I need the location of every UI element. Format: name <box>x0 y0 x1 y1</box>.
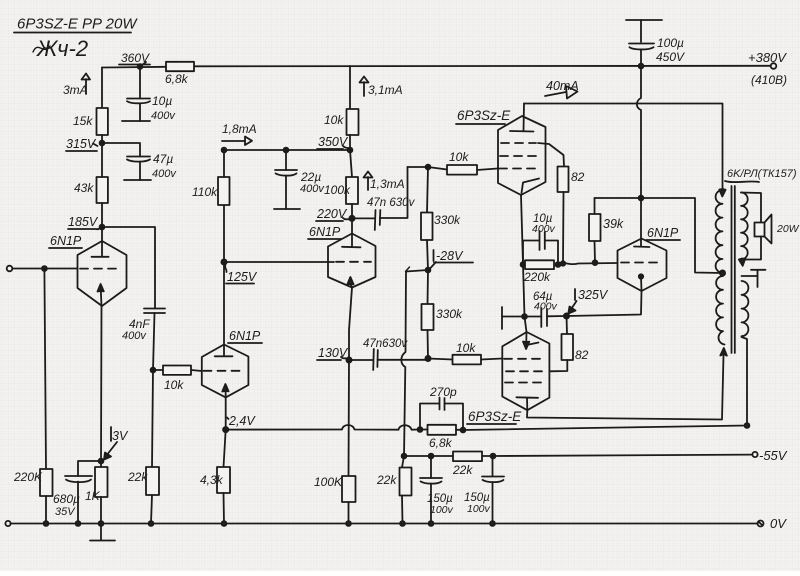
node rail/220K <box>44 521 49 526</box>
capacitor 22µ 400v (decoupling) <box>274 148 325 209</box>
svg-text:185V: 185V <box>68 215 99 229</box>
terminal input <box>7 266 13 272</box>
node 360V <box>119 51 150 69</box>
resistor 22k (bias filter) <box>404 452 493 478</box>
svg-text:82: 82 <box>575 348 589 362</box>
resistor 6,8k (feedback) <box>420 425 463 450</box>
svg-text:20W: 20W <box>776 223 800 235</box>
svg-text:330k: 330k <box>434 213 461 227</box>
resistor 15k <box>73 108 108 135</box>
resistor 6,8k (rail dropper) <box>165 62 194 86</box>
node lower cathode <box>522 314 527 319</box>
node rail reservoir <box>639 64 644 69</box>
wire V5 plate to transformer bottom <box>527 355 724 420</box>
capacitor 47n630v (coupling to lower output grid) <box>349 338 428 370</box>
resistor 220k (grid ref) <box>523 260 554 284</box>
svg-text:220K: 220K <box>13 470 43 484</box>
node lower grid network <box>425 356 430 361</box>
node feedback takeoff <box>745 423 750 428</box>
svg-text:400v: 400v <box>152 168 177 180</box>
node rail/22k <box>149 521 154 526</box>
node 39k bottom <box>593 260 598 265</box>
resistor 82 (upper screen) <box>558 167 585 264</box>
svg-text:0V: 0V <box>770 516 787 531</box>
resistor 10k (decoupling dropper) <box>324 109 359 135</box>
node 2,4V <box>223 414 256 432</box>
wire V2 plate to V3 grid <box>224 261 334 263</box>
svg-text:400v: 400v <box>532 223 556 235</box>
node V4 cathode <box>521 262 526 267</box>
transformer T1 center tap node <box>720 270 725 275</box>
svg-text:100K: 100K <box>314 475 343 489</box>
wire speaker bottom to secondary <box>741 237 761 260</box>
node decoupling 1,8mA <box>222 148 227 153</box>
node 350V <box>317 135 352 152</box>
node feedback network left <box>418 427 423 432</box>
node 325V <box>564 288 609 319</box>
transformer T1 core <box>732 186 735 353</box>
resistor 82 (lower screen) <box>549 316 588 371</box>
transformer T1 primary upper <box>716 190 723 273</box>
svg-text:1,3mA: 1,3mA <box>370 177 405 191</box>
svg-text:400v: 400v <box>534 301 558 313</box>
capacitor 10µ 400v (filter) <box>122 67 176 123</box>
wire rail drop to 10k <box>349 66 351 109</box>
transformer T1 primary lower <box>716 276 724 345</box>
node 125V <box>221 259 257 284</box>
capacitor 47µ 400v (filter) <box>102 143 177 180</box>
svg-text:35V: 35V <box>55 506 76 518</box>
node V2 grid network <box>151 368 156 373</box>
svg-text:270p: 270p <box>429 385 457 399</box>
capacitor 100µ 450V (reservoir) <box>626 20 685 66</box>
svg-text:325V: 325V <box>578 288 609 302</box>
node upper grid network <box>426 165 431 170</box>
svg-text:125V: 125V <box>227 270 258 284</box>
wire input to grid <box>12 268 77 270</box>
wire V2 cathode to 2,4V node <box>225 397 227 429</box>
svg-text:(410В): (410В) <box>751 73 787 87</box>
current arrow 3,1mA <box>360 77 403 98</box>
svg-text:-28V: -28V <box>436 249 464 263</box>
current arrow 1,8mA <box>222 122 257 145</box>
resistor 22k (V2 grid leak) <box>127 370 159 524</box>
svg-text:100v: 100v <box>467 503 491 515</box>
wire to V6 grid <box>558 263 618 265</box>
node 315V <box>66 137 104 151</box>
resistor 22k (bias bleeder to ground) <box>376 456 412 524</box>
svg-text:6P3Sz-E: 6P3Sz-E <box>457 108 511 123</box>
wire 15k to 315V node <box>101 135 103 143</box>
wire grid-leak drop <box>44 269 46 470</box>
svg-text:4nF: 4nF <box>129 317 150 331</box>
svg-text:39k: 39k <box>603 217 624 231</box>
svg-text:82: 82 <box>571 170 585 184</box>
node rail/100K <box>346 521 351 526</box>
wire V6 cathode to 325V node <box>567 291 642 316</box>
terminal 0V left <box>5 521 10 526</box>
wire decoupling node bus <box>224 149 350 151</box>
tube V2 6N1P second stage <box>202 329 262 397</box>
ground symbol <box>90 524 115 541</box>
node -55V left <box>402 454 407 459</box>
capacitor 10µ 400v (bias ac-couple) <box>523 213 558 265</box>
capacitor 47n 630v (coupling to upper output grid) <box>352 167 416 230</box>
wire feedback to V2 cathode (hops over 100K and bias columns) <box>226 425 420 430</box>
svg-text:40mA: 40mA <box>546 79 579 93</box>
wire top +380V rail <box>102 66 771 68</box>
wire 1K to rail <box>100 497 102 524</box>
arrowhead plate wire into primary <box>720 348 727 356</box>
wire secondary bottom down to feedback <box>742 337 748 426</box>
svg-text:47n630v: 47n630v <box>363 338 408 350</box>
svg-text:22k: 22k <box>376 473 397 487</box>
wire left column from rail <box>101 68 103 109</box>
terminal 0V right <box>758 516 788 531</box>
resistor 43k <box>74 177 108 203</box>
inductor-current arrow 3mA <box>63 74 90 98</box>
svg-text:6,8k: 6,8k <box>429 436 453 450</box>
svg-text:-55V: -55V <box>759 448 788 463</box>
node 185V <box>68 215 104 229</box>
svg-text:10k: 10k <box>456 341 476 355</box>
node rail/4,3k <box>222 521 227 526</box>
svg-text:100k: 100k <box>324 183 351 197</box>
capacitor 150µ 100v (bias filter 2) <box>464 454 504 524</box>
resistor 330k (upper bias divider) <box>421 167 461 270</box>
wire V4 plate to transformer top <box>524 104 723 190</box>
svg-text:680µ: 680µ <box>53 492 80 506</box>
wire V2 plate up <box>223 205 225 345</box>
resistor 330k (lower bias divider) <box>422 270 464 359</box>
node 220V <box>316 207 355 221</box>
svg-text:6K/РЛ(ТК157): 6K/РЛ(ТК157) <box>727 168 797 180</box>
node -28V <box>426 249 473 272</box>
resistor 10k (V2 grid stopper) <box>153 366 202 393</box>
tube V1 6N1P input triode <box>49 227 127 306</box>
svg-text:+380V: +380V <box>748 50 787 65</box>
svg-text:400v: 400v <box>300 183 325 195</box>
wire bias feed column (with s-bend hops) <box>401 272 406 457</box>
node 130V <box>317 346 352 363</box>
svg-text:10k: 10k <box>324 113 344 127</box>
svg-text:47µ: 47µ <box>153 152 173 166</box>
capacitor 680µ 35V (cathode bypass) <box>53 461 101 524</box>
svg-text:110k: 110k <box>192 185 218 199</box>
wire 10k to 350V node <box>349 135 351 150</box>
svg-text:400v: 400v <box>122 330 147 342</box>
tube V4 6P3S-E upper output <box>456 104 564 196</box>
svg-text:15k: 15k <box>73 114 93 128</box>
resistor 10k (upper output grid stopper) <box>428 150 498 175</box>
capacitor 150µ 100v (bias filter 1) <box>420 454 454 524</box>
svg-text:43k: 43k <box>74 181 94 195</box>
wire V1 cathode <box>100 306 103 467</box>
wire 39k top to rail drop and CT <box>595 198 723 273</box>
resistor 10k (lower output grid stopper) <box>428 341 502 364</box>
svg-text:450V: 450V <box>656 50 685 64</box>
svg-text:1,8mA: 1,8mA <box>222 122 257 136</box>
capacitor 4nF 400v (coupling) <box>122 309 165 371</box>
svg-text:6P3Sz-E: 6P3Sz-E <box>468 409 522 424</box>
secondary mid tap with bar <box>742 270 766 287</box>
svg-text:6N1P: 6N1P <box>309 225 341 239</box>
wire V4 cathode <box>521 195 523 265</box>
wire long feedback from secondary <box>463 426 747 431</box>
wire -28V to bias feed column <box>406 270 428 272</box>
svg-text:6P3SZ-E PP 20W: 6P3SZ-E PP 20W <box>17 16 138 33</box>
svg-text:47n 630v: 47n 630v <box>367 197 416 209</box>
svg-text:22µ: 22µ <box>300 170 321 184</box>
node screen junction <box>561 261 565 265</box>
svg-text:100µ: 100µ <box>657 36 684 50</box>
tube V6 6N1P (driver/regulator) <box>618 226 681 291</box>
svg-text:6N1P: 6N1P <box>229 329 261 343</box>
svg-text:2,4V: 2,4V <box>228 414 256 428</box>
svg-text:22k: 22k <box>452 463 473 477</box>
wire bottom 0V rail <box>11 523 758 525</box>
resistor 1K (cathode) <box>85 467 108 503</box>
svg-text:100v: 100v <box>430 504 454 516</box>
svg-text:3mA: 3mA <box>63 83 88 97</box>
node feedback network right <box>461 428 466 433</box>
terminal +380V <box>748 50 787 87</box>
svg-text:10k: 10k <box>449 150 469 164</box>
resistor 4,3k (V2 cathode) <box>200 430 230 524</box>
svg-text:Жч-2: Жч-2 <box>36 36 88 61</box>
resistor 39k <box>589 198 624 263</box>
node rail/680µ <box>76 521 81 526</box>
svg-text:6N1P: 6N1P <box>647 226 679 240</box>
title 6P3SZ-E PP 20W <box>14 16 138 62</box>
svg-text:6N1P: 6N1P <box>50 234 82 248</box>
wire secondary top to speaker <box>741 193 761 223</box>
current arrow 40mA <box>545 79 579 99</box>
svg-text:3V: 3V <box>112 429 129 443</box>
svg-text:4,3k: 4,3k <box>200 473 224 487</box>
tube V3 cathode wire to 130V node <box>349 288 352 361</box>
svg-text:3,1mA: 3,1mA <box>368 83 403 97</box>
node rail/1K/ground <box>99 521 104 526</box>
svg-text:10k: 10k <box>164 378 184 392</box>
wire node to grid resistor <box>408 166 429 168</box>
wire 185V to coupling cap <box>102 227 155 309</box>
tube V3 6N1P (at 220V) <box>308 218 376 287</box>
arrowhead primary top <box>719 189 725 197</box>
wire rail drop (hops plate wire) <box>637 66 641 240</box>
transformer T1 label <box>725 168 797 182</box>
wire -55V rail <box>493 455 752 456</box>
svg-text:330k: 330k <box>436 307 463 321</box>
node input junction <box>42 266 47 271</box>
node rail drop <box>639 196 644 201</box>
current arrow 1,3mA <box>364 172 405 192</box>
transformer T1 secondary lower <box>742 281 749 336</box>
node rail/150µ-1 <box>429 521 434 526</box>
resistor 100k (V3 plate load) <box>324 150 358 218</box>
svg-text:315V: 315V <box>66 137 97 151</box>
svg-text:220k: 220k <box>523 270 551 284</box>
node 220k right <box>556 262 561 267</box>
svg-text:10µ: 10µ <box>152 94 172 108</box>
svg-text:6,8k: 6,8k <box>165 72 189 86</box>
resistor 100K (tail to ground) <box>314 360 356 524</box>
capacitor 270p (feedback) <box>420 385 463 430</box>
svg-text:1K: 1K <box>85 489 101 503</box>
speaker LS 20W <box>755 215 800 244</box>
wire 43k to 185V node <box>101 203 103 227</box>
resistor 110k (V2 plate load) <box>192 177 230 205</box>
wire 110k top to 1,8mA node <box>223 150 225 177</box>
svg-text:22k: 22k <box>127 470 148 484</box>
capacitor 64µ 400v (cathode coupling) <box>502 291 567 329</box>
node rail/22k-vert <box>400 521 405 526</box>
node rail/150µ-2 <box>490 521 495 526</box>
wire upper cathode to lower cathode <box>523 265 525 317</box>
terminal -55V <box>752 448 787 463</box>
tube V5 6P3S-E lower output (inverted) <box>467 317 549 425</box>
wire 315V node to 43k <box>101 143 103 177</box>
node 3V cathode <box>99 427 129 463</box>
wire 220K to rail <box>45 496 47 524</box>
arrowhead secondary bottom <box>739 259 745 266</box>
svg-text:400v: 400v <box>151 110 176 122</box>
transformer T1 secondary upper <box>741 193 748 260</box>
resistor 220K (grid leak) <box>13 469 53 496</box>
